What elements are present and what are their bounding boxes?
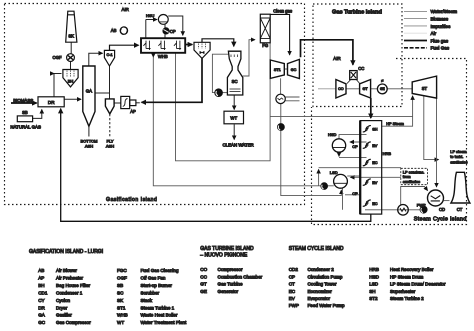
svg-text:Economizer: Economizer (308, 289, 333, 294)
svg-text:EC: EC (289, 289, 296, 294)
svg-text:OGF: OGF (117, 276, 127, 281)
svg-text:NATURAL GAS: NATURAL GAS (10, 125, 41, 130)
svg-text:FGC: FGC (117, 268, 127, 273)
svg-text:Biomass: Biomass (431, 17, 449, 22)
svg-text:Off Gas Fan: Off Gas Fan (141, 276, 166, 281)
svg-text:EV: EV (289, 296, 296, 301)
svg-text:GA: GA (86, 89, 92, 94)
svg-text:AB: AB (38, 268, 44, 273)
svg-text:OGF: OGF (53, 55, 63, 60)
svg-text:auxiliaries: auxiliaries (403, 179, 420, 184)
svg-text:to turbi.: to turbi. (450, 154, 463, 159)
svg-text:ST2: ST2 (369, 296, 378, 301)
svg-text:– NUOVO PIGNONE: – NUOVO PIGNONE (200, 253, 248, 259)
svg-text:DR: DR (38, 305, 45, 310)
svg-text:Fuel Gas: Fuel Gas (431, 46, 450, 51)
svg-text:GAS TURBINE ISLAND: GAS TURBINE ISLAND (200, 246, 254, 252)
svg-text:Fuel Gas Cleaning: Fuel Gas Cleaning (141, 268, 179, 273)
svg-text:Scrubber: Scrubber (141, 291, 160, 296)
svg-text:SB: SB (117, 283, 123, 288)
svg-text:Gas Compressor: Gas Compressor (56, 320, 91, 325)
svg-text:Flue gas: Flue gas (431, 38, 449, 43)
svg-text:EC: EC (372, 202, 378, 206)
svg-text:GC: GC (291, 68, 297, 72)
svg-text:Air Preheater: Air Preheater (56, 276, 84, 281)
svg-text:Waste Heat Boiler: Waste Heat Boiler (141, 313, 178, 318)
svg-text:SB: SB (22, 110, 28, 115)
svg-text:EC: EC (372, 161, 378, 165)
svg-text:CC: CC (358, 66, 364, 71)
svg-text:SH: SH (369, 289, 375, 294)
svg-text:AP: AP (130, 109, 136, 114)
svg-text:Gas Turbine Island: Gas Turbine Island (332, 10, 383, 16)
svg-text:CT: CT (289, 282, 295, 287)
svg-text:SC: SC (232, 79, 238, 84)
svg-text:AP: AP (38, 276, 44, 281)
svg-text:Clean gas: Clean gas (273, 9, 292, 14)
svg-text:Start-up Burner: Start-up Burner (141, 283, 173, 288)
svg-text:Superheater: Superheater (390, 289, 416, 294)
svg-text:WT: WT (230, 116, 237, 121)
svg-text:AIR: AIR (333, 56, 340, 61)
svg-text:LSD: LSD (369, 282, 379, 287)
svg-text:AIR: AIR (122, 7, 129, 12)
svg-text:C-1: C-1 (107, 53, 113, 57)
svg-text:HSD: HSD (328, 132, 337, 137)
svg-text:GE: GE (380, 87, 385, 91)
svg-text:GC: GC (38, 320, 46, 325)
svg-text:Generator: Generator (218, 289, 239, 294)
svg-text:Steam Turbine 2: Steam Turbine 2 (390, 296, 424, 301)
svg-text:WHB: WHB (117, 313, 128, 318)
svg-text:CC: CC (200, 274, 207, 279)
svg-text:Steam Turbine 1: Steam Turbine 1 (141, 305, 175, 310)
svg-text:auxiliaries: auxiliaries (450, 160, 467, 165)
svg-text:Combustion Chamber: Combustion Chamber (218, 274, 263, 279)
svg-text:Feed Water Pump: Feed Water Pump (308, 303, 346, 308)
svg-text:Condenser 2: Condenser 2 (308, 267, 335, 272)
svg-text:ST1: ST1 (117, 305, 126, 310)
svg-text:Gasifier: Gasifier (56, 313, 72, 318)
svg-text:Compressor: Compressor (218, 267, 243, 272)
svg-text:Condenser 1: Condenser 1 (56, 291, 83, 296)
svg-text:Air: Air (431, 31, 437, 36)
svg-text:Circulation Pump: Circulation Pump (308, 274, 343, 279)
svg-text:Dryer: Dryer (56, 305, 68, 310)
svg-text:Cyclon: Cyclon (56, 298, 70, 303)
svg-text:Gasification Island: Gasification Island (106, 197, 157, 203)
svg-text:SK: SK (117, 298, 124, 303)
svg-text:CD1: CD1 (38, 291, 48, 296)
svg-text:ASH: ASH (85, 144, 93, 149)
svg-text:SC: SC (117, 291, 124, 296)
svg-text:HRB: HRB (369, 267, 379, 272)
svg-text:Gas Turbine: Gas Turbine (218, 282, 243, 287)
svg-text:FWP: FWP (417, 203, 426, 208)
svg-text:HP Steam: HP Steam (386, 121, 404, 126)
svg-text:HP Steam Drum: HP Steam Drum (390, 274, 424, 279)
svg-text:GT: GT (363, 87, 369, 91)
svg-text:CT: CT (457, 207, 463, 212)
svg-text:DR: DR (48, 100, 55, 105)
svg-text:Steam Cycle Island: Steam Cycle Island (414, 217, 467, 223)
svg-text:SH: SH (372, 127, 378, 131)
svg-text:HRB: HRB (383, 151, 392, 156)
svg-text:WT: WT (117, 320, 124, 325)
svg-text:STEAM CYCLE ISLAND: STEAM CYCLE ISLAND (289, 246, 344, 252)
svg-text:CD: CD (439, 207, 445, 212)
svg-text:BH: BH (38, 283, 44, 288)
svg-text:AB: AB (111, 28, 117, 33)
svg-text:Stack: Stack (141, 298, 153, 303)
svg-text:GT: GT (200, 282, 207, 287)
svg-text:CP: CP (170, 29, 176, 34)
svg-text:LP Steam Drum/ Deaerator: LP Steam Drum/ Deaerator (390, 282, 446, 287)
svg-text:Evaporator: Evaporator (308, 296, 331, 301)
svg-text:Water/Steam: Water/Steam (431, 9, 458, 14)
svg-text:LP steam: LP steam (450, 149, 466, 154)
svg-text:CP: CP (352, 191, 358, 196)
svg-text:HSU: HSU (146, 13, 155, 18)
svg-text:LSD: LSD (330, 170, 338, 175)
svg-text:Water Treatment Plant: Water Treatment Plant (141, 320, 188, 325)
svg-text:FG: FG (262, 43, 268, 48)
svg-text:HSD: HSD (369, 274, 379, 279)
svg-text:EV: EV (372, 181, 378, 185)
svg-text:Bag House Filter: Bag House Filter (56, 283, 91, 288)
svg-text:Heat Recovery Boiler: Heat Recovery Boiler (390, 267, 434, 272)
svg-text:FWP: FWP (289, 303, 299, 308)
svg-text:GASIFICATION ISLAND - LURGI: GASIFICATION ISLAND - LURGI (29, 249, 103, 255)
svg-text:Air Blower: Air Blower (56, 268, 77, 273)
svg-text:Cooling Tower: Cooling Tower (308, 282, 337, 287)
svg-text:Impurities: Impurities (431, 24, 452, 29)
svg-text:≠: ≠ (381, 79, 383, 83)
svg-text:EV: EV (372, 144, 378, 148)
svg-text:CY: CY (38, 298, 44, 303)
svg-text:BH: BH (68, 79, 74, 84)
svg-text:WHB: WHB (158, 54, 168, 59)
svg-text:ASH: ASH (106, 144, 114, 149)
svg-text:CO: CO (200, 267, 207, 272)
svg-text:CLEAN WATER: CLEAN WATER (223, 143, 254, 148)
svg-text:CO: CO (338, 87, 344, 91)
svg-text:CD2: CD2 (289, 267, 299, 272)
svg-text:CP: CP (289, 274, 295, 279)
svg-text:BIOMASS: BIOMASS (13, 98, 33, 103)
svg-text:SK: SK (68, 34, 74, 39)
svg-text:CP: CP (352, 144, 358, 149)
svg-text:GA: GA (38, 313, 46, 318)
svg-text:GE: GE (200, 289, 207, 294)
svg-text:ST1: ST1 (274, 68, 281, 72)
svg-text:ST: ST (422, 86, 428, 91)
